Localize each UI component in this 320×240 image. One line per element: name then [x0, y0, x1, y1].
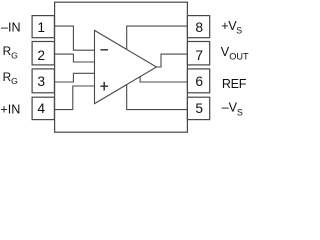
svg-text:RG: RG	[3, 44, 19, 60]
wire pin3 (RG) to gain terminal lower	[55, 73, 95, 82]
wire pin2 (RG) to gain terminal upper	[55, 54, 95, 62]
svg-text:–VS: –VS	[222, 101, 243, 118]
pin box 4	[32, 97, 54, 119]
pin box 6	[187, 69, 209, 93]
op-amp non-inverting input plus sign	[100, 82, 108, 91]
svg-text:2: 2	[37, 48, 45, 63]
svg-text:VOUT: VOUT	[221, 45, 249, 62]
svg-text:RG: RG	[3, 70, 19, 86]
op-amp U1 triangle	[95, 30, 157, 103]
wire pin4 (+IN) to non-inverting input	[55, 86, 95, 110]
svg-text:+VS: +VS	[221, 19, 242, 36]
svg-text:–IN: –IN	[1, 21, 21, 35]
svg-text:1: 1	[37, 20, 45, 35]
svg-text:REF: REF	[222, 77, 247, 91]
svg-text:+IN: +IN	[0, 102, 20, 116]
pin box 3	[32, 69, 54, 93]
svg-text:7: 7	[195, 48, 203, 63]
pin box 1	[32, 16, 54, 38]
pin box 7	[187, 42, 209, 65]
wire REF node to pin6	[140, 77, 187, 82]
wire pin5 (-VS) to op-amp bottom edge	[127, 85, 188, 110]
pin box 8	[187, 16, 209, 38]
svg-text:6: 6	[195, 74, 203, 89]
svg-text:4: 4	[37, 101, 45, 116]
wire op-amp output to pin7 (VOUT)	[157, 54, 188, 67]
pin box 2	[32, 42, 54, 65]
svg-text:5: 5	[195, 101, 203, 116]
wire pin1 (-IN) to inverting input	[55, 26, 95, 50]
wire pin8 (+VS) to op-amp top edge	[127, 26, 188, 49]
op-amp inverting input minus sign	[100, 49, 108, 51]
IC package body U1	[55, 2, 188, 132]
pin box 5	[187, 97, 209, 119]
svg-text:3: 3	[37, 74, 45, 89]
svg-text:8: 8	[195, 20, 203, 35]
